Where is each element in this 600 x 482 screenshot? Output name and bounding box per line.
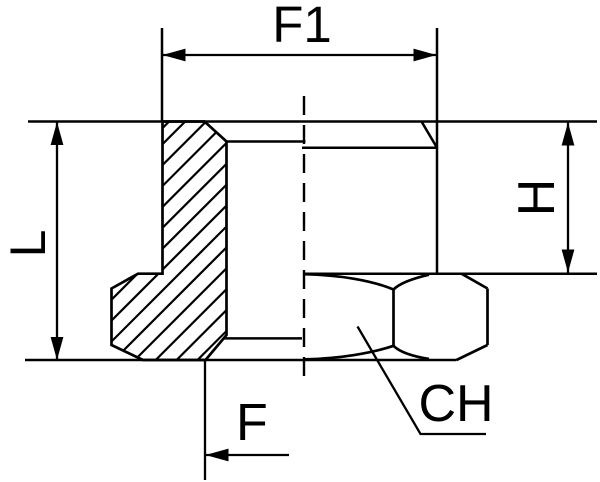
arrow F1 right xyxy=(414,49,437,62)
hex top front chamfer arc xyxy=(304,274,394,289)
section outline (hatched body) xyxy=(112,122,227,361)
dimension F line xyxy=(206,454,289,456)
chamfer base edge xyxy=(302,147,437,150)
bottom face line xyxy=(25,359,457,362)
body right edge / F1 extension xyxy=(436,28,439,274)
F extension line xyxy=(204,361,206,480)
arrow L bottom xyxy=(51,337,64,360)
svg-text:F: F xyxy=(236,394,268,452)
arrow H top xyxy=(562,123,575,146)
hatch (section lines) xyxy=(0,100,458,400)
countersink base edge xyxy=(227,140,306,143)
hex top-right corner diagonal xyxy=(462,274,488,289)
hex vertex line xyxy=(392,290,395,346)
dimension F1 line xyxy=(162,54,437,56)
hex top face line xyxy=(303,272,597,275)
svg-text:H: H xyxy=(508,179,566,217)
dimension L line xyxy=(56,122,58,360)
centerline xyxy=(303,96,305,377)
svg-text:L: L xyxy=(0,230,56,258)
hex right edge xyxy=(486,289,489,346)
CH leader line xyxy=(358,327,487,435)
bottom countersink edge xyxy=(224,337,302,340)
arrow H bottom xyxy=(562,250,575,273)
svg-text:F1: F1 xyxy=(272,0,332,53)
hex top side chamfer arc xyxy=(394,275,430,290)
hex bottom-right corner diagonal xyxy=(457,345,488,360)
hex bottom side chamfer arc xyxy=(394,346,430,359)
dimension H line xyxy=(567,123,569,273)
arrow F1 left xyxy=(163,49,186,62)
svg-text:CH: CH xyxy=(419,375,494,433)
outer chamfer diagonal xyxy=(422,122,438,148)
top face line xyxy=(28,120,597,123)
arrow F xyxy=(206,449,229,462)
F1 left extension xyxy=(161,28,164,122)
arrow L top xyxy=(51,122,64,145)
hex bottom front chamfer arc xyxy=(304,346,394,360)
